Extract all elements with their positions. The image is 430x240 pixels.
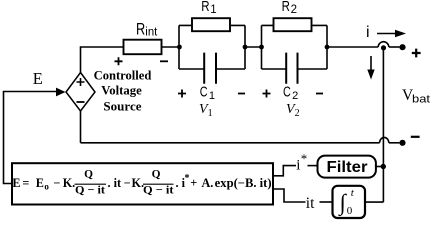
svg-text:R: R (201, 0, 209, 15)
svg-text:Q: Q (84, 169, 93, 181)
svg-text:Q − it: Q − it (143, 184, 174, 196)
svg-text:0: 0 (347, 205, 353, 217)
svg-text:2: 2 (292, 90, 298, 102)
svg-text:. it: . it (108, 176, 122, 190)
svg-text:1: 1 (209, 90, 215, 102)
svg-text:E: E (33, 69, 43, 88)
svg-text:Q − it: Q − it (75, 184, 105, 196)
svg-text:E: E (36, 176, 44, 190)
svg-text:*: * (301, 151, 308, 166)
svg-text:o: o (44, 181, 49, 191)
svg-text:E: E (12, 176, 20, 190)
svg-text:Filter: Filter (327, 159, 368, 176)
svg-text:int: int (145, 27, 158, 39)
svg-text:+: + (190, 176, 197, 190)
svg-text:i: i (366, 24, 370, 41)
svg-text:R: R (282, 0, 290, 15)
svg-text:Controlled: Controlled (94, 69, 152, 83)
svg-text:*: * (185, 173, 190, 184)
svg-text:K.: K. (63, 176, 76, 190)
svg-text:−: − (124, 176, 131, 190)
svg-text:A.: A. (202, 176, 214, 190)
svg-text:Voltage: Voltage (101, 84, 142, 98)
svg-text:−: − (54, 176, 61, 190)
svg-text:Source: Source (103, 99, 141, 113)
svg-text:Q: Q (152, 169, 161, 181)
svg-text:=: = (22, 176, 29, 190)
svg-text:C: C (200, 85, 208, 101)
svg-text:C: C (283, 85, 291, 101)
svg-text:bat: bat (412, 94, 430, 106)
svg-text:2: 2 (291, 4, 297, 16)
svg-text:1: 1 (210, 4, 216, 16)
svg-text:exp(−B. it): exp(−B. it) (215, 176, 272, 190)
svg-text:it: it (306, 195, 315, 212)
svg-text:R: R (136, 21, 145, 39)
